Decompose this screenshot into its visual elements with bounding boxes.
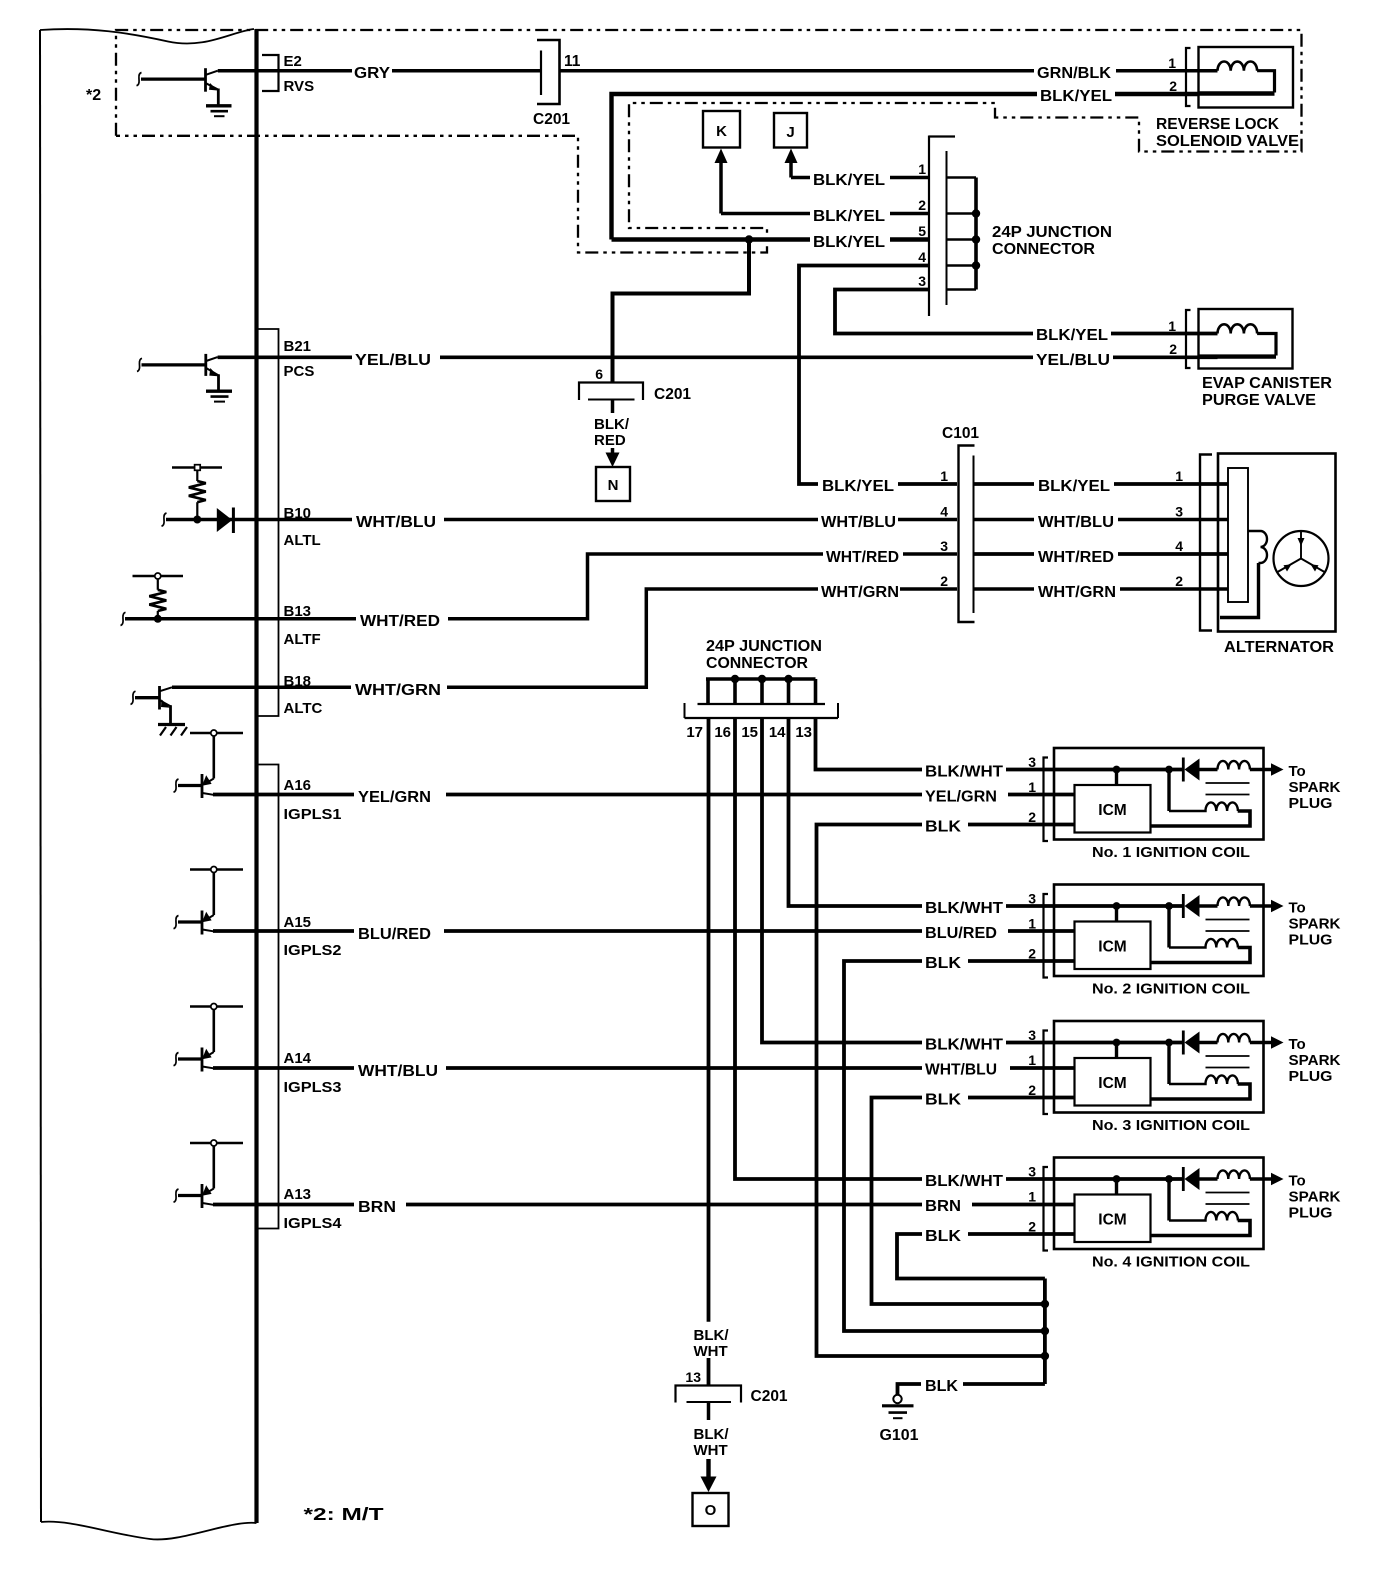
svg-text:WHT/RED: WHT/RED xyxy=(826,549,899,566)
ignition coil No.1 internals xyxy=(1044,748,1284,841)
svg-text:2: 2 xyxy=(1169,341,1177,357)
svg-text:WHT/BLU: WHT/BLU xyxy=(356,514,436,531)
label BLK/YEL (alt) xyxy=(1034,476,1114,492)
svg-text:24P JUNCTION: 24P JUNCTION xyxy=(992,224,1112,241)
transistor Q5 (IGPLS2 A15) xyxy=(174,867,244,935)
arrow to terminal O xyxy=(706,1459,710,1480)
svg-text:BLK/WHT: BLK/WHT xyxy=(925,764,1004,781)
wire BLU/RED (A15 to coil 2) xyxy=(213,929,1075,933)
svg-text:YEL/BLU: YEL/BLU xyxy=(1036,352,1110,369)
svg-text:J: J xyxy=(786,124,794,141)
svg-text:K: K xyxy=(716,123,727,140)
label YEL/GRN (left) xyxy=(354,786,446,803)
svg-text:3: 3 xyxy=(1175,504,1183,520)
wire junction pin 3 to EVAP valve pin 1 (BLK/YEL) xyxy=(835,290,1218,334)
svg-text:WHT/GRN: WHT/GRN xyxy=(355,682,441,699)
svg-text:BLK/YEL: BLK/YEL xyxy=(813,208,885,225)
wire column pin 13 (to coil 1 BLK/WHT) xyxy=(816,718,1184,770)
svg-text:RVS: RVS xyxy=(284,78,315,95)
svg-text:1: 1 xyxy=(1028,1189,1036,1205)
pull-up terminal (B10) xyxy=(172,465,222,471)
svg-text:IGPLS2: IGPLS2 xyxy=(284,942,342,959)
label WHT/RED (alt) xyxy=(1034,546,1118,563)
terminal box K xyxy=(703,111,740,148)
label WHT/RED (C101 left) xyxy=(823,546,903,563)
svg-text:SPARK: SPARK xyxy=(1289,779,1341,796)
svg-text:ICM: ICM xyxy=(1098,1075,1126,1092)
wire to C201 pin 13 xyxy=(707,1358,711,1385)
wire WHT/GRN (C101 to alternator pin 2) xyxy=(975,587,1229,591)
node (coil1 BLK) xyxy=(1041,1352,1049,1360)
wire column pin 14 (to coil 2 BLK/WHT) xyxy=(789,718,1184,906)
ECM pin bracket (A group) xyxy=(259,765,279,1229)
svg-text:4: 4 xyxy=(1175,538,1183,554)
svg-text:16: 16 xyxy=(714,724,731,741)
node (R2 to wire B13) xyxy=(154,615,162,623)
label YEL/BLU (EVAP) xyxy=(1033,349,1113,366)
svg-text:WHT/GRN: WHT/GRN xyxy=(1038,584,1116,601)
label BLK/YEL (pin2 wire) xyxy=(810,206,890,222)
label WHT/BLU (C101 left) xyxy=(818,511,898,528)
svg-text:2: 2 xyxy=(1028,809,1036,825)
svg-text:No. 3 IGNITION COIL: No. 3 IGNITION COIL xyxy=(1092,1117,1250,1134)
ignition coil No.2 internals xyxy=(1044,885,1284,978)
svg-text:3: 3 xyxy=(1028,891,1036,907)
wire column pin 17 (to C201 pin 13) xyxy=(707,718,711,1322)
svg-text:BLK/WHT: BLK/WHT xyxy=(925,1037,1004,1054)
svg-text:CONNECTOR: CONNECTOR xyxy=(992,241,1095,258)
svg-text:IGPLS1: IGPLS1 xyxy=(284,806,342,823)
wire BLK/YEL (C101 to alternator pin 1) xyxy=(975,482,1229,486)
svg-text:IGPLS3: IGPLS3 xyxy=(284,1079,342,1096)
svg-text:2: 2 xyxy=(918,197,926,213)
arrow + wire BLK/YEL to J (junction pin 1) xyxy=(785,149,930,178)
ECM pin bracket (B group) xyxy=(259,329,279,716)
wire BLK (coil 3 to ground bus) xyxy=(872,1098,1075,1305)
svg-text:2: 2 xyxy=(1028,1219,1036,1235)
svg-text:WHT/BLU: WHT/BLU xyxy=(1038,514,1114,531)
EVAP canister purge valve xyxy=(1186,309,1293,369)
svg-text:3: 3 xyxy=(918,273,926,289)
label WHT/GRN (alt) xyxy=(1034,581,1120,598)
transistor Q2 (PCS driver B21) xyxy=(137,354,219,390)
svg-text:YEL/BLU: YEL/BLU xyxy=(355,352,431,369)
svg-text:O: O xyxy=(705,1502,717,1519)
arrow to terminal N xyxy=(611,448,615,457)
ground (Q1 emitter) xyxy=(206,106,232,116)
svg-text:YEL/GRN: YEL/GRN xyxy=(925,789,997,806)
wire BLK/WHT below C201-13 xyxy=(707,1402,711,1420)
wire WHT/BLU (A14 to coil 3) xyxy=(213,1066,1075,1070)
label BLK/YEL (C101 left) xyxy=(818,476,898,492)
ground G101 xyxy=(882,1395,914,1418)
pull-up terminal (B13) xyxy=(133,573,184,579)
svg-text:15: 15 xyxy=(741,724,758,741)
label BLU/RED (left) xyxy=(354,923,444,940)
label WHT/GRN (left) xyxy=(351,679,447,696)
wire GRN/BLK (C201 to reverse lock solenoid valve pin 1) xyxy=(560,69,1218,73)
svg-text:1: 1 xyxy=(1168,55,1176,71)
svg-text:BLK: BLK xyxy=(925,1092,962,1109)
svg-text:WHT: WHT xyxy=(694,1343,728,1360)
reverse lock solenoid valve xyxy=(1186,47,1293,108)
wire BLU/RED (coil 2 pin1 label) xyxy=(922,923,1008,940)
svg-text:4: 4 xyxy=(940,504,948,520)
svg-text:C201: C201 xyxy=(533,111,570,128)
svg-text:BLU/RED: BLU/RED xyxy=(358,926,431,943)
svg-text:WHT/BLU: WHT/BLU xyxy=(925,1062,997,1079)
wire WHT/BLU (B10 to C101 pin 4) xyxy=(257,518,958,522)
svg-text:ALTF: ALTF xyxy=(284,631,321,648)
svg-text:BLK: BLK xyxy=(925,1378,959,1395)
label WHT/BLU (left) xyxy=(352,511,444,528)
label BLK/ RED xyxy=(590,414,636,447)
ground (Q2 emitter) xyxy=(206,391,232,401)
label BLK/YEL (EVAP) xyxy=(1033,325,1111,341)
svg-text:1: 1 xyxy=(1028,916,1036,932)
svg-text:BLK/YEL: BLK/YEL xyxy=(1038,478,1110,495)
svg-text:B21: B21 xyxy=(284,338,312,355)
svg-text:2: 2 xyxy=(1175,573,1183,589)
label GRY xyxy=(352,62,392,79)
svg-text:BLK/WHT: BLK/WHT xyxy=(925,1173,1004,1190)
svg-text:A14: A14 xyxy=(284,1050,312,1067)
wire BLK (coil 2 pin2 label) xyxy=(922,953,968,970)
node (coil3 BLK) xyxy=(1041,1300,1049,1308)
svg-text:ALTL: ALTL xyxy=(284,532,321,549)
svg-text:BRN: BRN xyxy=(925,1198,961,1215)
label YEL/BLU (left) xyxy=(352,349,440,366)
svg-text:GRN/BLK: GRN/BLK xyxy=(1037,65,1112,82)
wire YEL/GRN (A16 to coil 1) xyxy=(213,793,1075,797)
M/T dash-dot boundary loop xyxy=(116,30,1302,253)
wire BLK (coil 1 pin2 label) xyxy=(922,816,968,833)
label WHT/BLU (A14) xyxy=(354,1060,446,1077)
svg-text:PCS: PCS xyxy=(284,363,315,380)
svg-text:6: 6 xyxy=(595,366,603,382)
wire BRN (coil 4 pin1 label) xyxy=(922,1196,972,1213)
wire WHT/BLU (C101 to alternator pin 3) xyxy=(975,518,1229,522)
svg-text:N: N xyxy=(608,477,619,494)
svg-text:ALTC: ALTC xyxy=(284,700,323,717)
wire column pin 16 (to coil 4 BLK/WHT) xyxy=(735,718,1183,1179)
transistor Q1 (RVS driver, *2) xyxy=(137,68,219,104)
transistor Q7 (IGPLS4 A13) xyxy=(174,1140,244,1208)
ground bus vertical xyxy=(1043,1279,1047,1385)
svg-text:BLK/: BLK/ xyxy=(594,416,630,433)
svg-text:BLK/: BLK/ xyxy=(694,1327,730,1344)
transistor Q4 (IGPLS1 A16) xyxy=(174,730,244,798)
wire BLK/RED below C201-6 xyxy=(611,400,615,414)
svg-text:To: To xyxy=(1289,1036,1306,1053)
svg-text:*2: *2 xyxy=(86,87,101,104)
ignition coil No.4 internals xyxy=(1044,1158,1284,1251)
wire WHT/BLU (B10 internal) xyxy=(166,518,257,522)
wire WHT/GRN (B18 to C101 pin 2) xyxy=(172,589,957,687)
svg-text:14: 14 xyxy=(769,724,786,741)
svg-text:2: 2 xyxy=(1169,78,1177,94)
diode D1 (B10) xyxy=(217,508,232,532)
svg-text:REVERSE LOCK: REVERSE LOCK xyxy=(1156,116,1280,133)
svg-text:ALTERNATOR: ALTERNATOR xyxy=(1224,639,1334,656)
node (R1 to wire B10) xyxy=(193,516,201,524)
connector C201 pin 6 (in-line) xyxy=(579,383,643,401)
svg-text:A16: A16 xyxy=(284,777,312,794)
svg-text:13: 13 xyxy=(795,724,812,741)
arrow + wire BLK/YEL to K (junction pin 2) xyxy=(715,149,930,214)
label WHT/RED (left) xyxy=(356,610,448,627)
alternator xyxy=(1200,454,1336,632)
label BLK/YEL (pin1 wire) xyxy=(810,170,890,186)
svg-text:24P JUNCTION: 24P JUNCTION xyxy=(706,638,822,655)
wire YEL/BLU (B21 PCS to EVAP pin 2) xyxy=(218,355,1218,359)
connector C201 pin 11 (in-line) xyxy=(537,40,560,104)
svg-text:1: 1 xyxy=(1168,318,1176,334)
resistor R2 (B13) xyxy=(149,579,166,619)
svg-text:PLUG: PLUG xyxy=(1289,795,1333,812)
svg-text:PLUG: PLUG xyxy=(1289,1205,1333,1222)
wire BLK (coil 1 to ground bus) xyxy=(817,825,1075,1357)
transistor Q3 (ALTC B18) xyxy=(131,686,173,724)
svg-text:No. 1 IGNITION COIL: No. 1 IGNITION COIL xyxy=(1092,844,1250,861)
wire BLK (coil 2 to ground bus) xyxy=(844,961,1075,1331)
svg-text:SOLENOID VALVE: SOLENOID VALVE xyxy=(1156,133,1299,150)
svg-text:BLK/YEL: BLK/YEL xyxy=(813,234,885,251)
svg-text:5: 5 xyxy=(918,223,926,239)
svg-text:PLUG: PLUG xyxy=(1289,932,1333,949)
wire BLK/WHT label (coil 1) xyxy=(922,761,1006,778)
label BLK/YEL (pin5) xyxy=(810,232,890,248)
wire column pin 15 (to coil 3 BLK/WHT) xyxy=(762,718,1183,1043)
svg-text:3: 3 xyxy=(1028,1164,1036,1180)
svg-text:1: 1 xyxy=(918,161,926,177)
svg-text:E2: E2 xyxy=(284,53,302,70)
svg-text:BLK/YEL: BLK/YEL xyxy=(822,478,894,495)
svg-text:BLK/YEL: BLK/YEL xyxy=(813,172,885,189)
svg-text:ICM: ICM xyxy=(1098,939,1126,956)
svg-text:1: 1 xyxy=(1028,1052,1036,1068)
svg-text:3: 3 xyxy=(1028,1027,1036,1043)
wire BLK/YEL junction pin 5 xyxy=(612,237,930,241)
wire BLK/WHT label (coil 3) xyxy=(922,1034,1006,1051)
svg-text:11: 11 xyxy=(564,53,581,70)
svg-text:A15: A15 xyxy=(284,914,312,931)
svg-text:BRN: BRN xyxy=(358,1199,396,1216)
connector C201 pin 13 (in-line) xyxy=(676,1386,742,1403)
wire BLK (coil 3 pin2 label) xyxy=(922,1089,968,1106)
svg-text:No. 4 IGNITION COIL: No. 4 IGNITION COIL xyxy=(1092,1254,1250,1271)
label BRN (left) xyxy=(354,1196,406,1213)
wire WHT/RED (B13 internal) xyxy=(125,617,257,621)
connector pin E2 bracket xyxy=(262,55,279,91)
wire WHT/RED (B13 to C101 pin 3) xyxy=(257,554,958,619)
svg-text:17: 17 xyxy=(686,724,703,741)
terminal box J xyxy=(774,113,807,148)
svg-text:CONNECTOR: CONNECTOR xyxy=(706,655,808,672)
svg-text:EVAP CANISTER: EVAP CANISTER xyxy=(1202,375,1332,392)
svg-text:SPARK: SPARK xyxy=(1289,916,1341,933)
transistor Q6 (IGPLS3 A14) xyxy=(174,1004,244,1072)
chassis ground (B18 emitter, 777 style) xyxy=(158,725,187,736)
svg-text:3: 3 xyxy=(1028,754,1036,770)
svg-text:BLK/WHT: BLK/WHT xyxy=(925,900,1004,917)
terminal box N xyxy=(596,467,630,501)
wire BLK/WHT label (coil 2) xyxy=(922,898,1006,915)
svg-text:To: To xyxy=(1289,763,1306,780)
svg-text:BLK/: BLK/ xyxy=(694,1426,730,1443)
wire WHT/RED (C101 to alternator pin 4) xyxy=(975,552,1229,556)
svg-text:WHT: WHT xyxy=(694,1442,728,1459)
wire junction pin 4 to C101 pin 1 (BLK/YEL) xyxy=(799,266,957,485)
ignition coil No.3 internals xyxy=(1044,1021,1284,1114)
ECM body (torn-edge block) xyxy=(40,29,257,1539)
svg-text:2: 2 xyxy=(1028,1082,1036,1098)
junction node (pin5 branch) xyxy=(745,235,753,243)
label WHT/BLU (alt) xyxy=(1034,511,1118,528)
svg-text:1: 1 xyxy=(1175,468,1183,484)
label BLK/YEL (solenoid pin2) xyxy=(1037,86,1115,102)
wire WHT/BLU (coil 3 pin1 label) xyxy=(922,1059,1010,1076)
wire BLK (coil 4 to ground bus) xyxy=(897,1234,1075,1279)
wire BRN (A13 to coil 4) xyxy=(213,1203,1075,1207)
svg-text:To: To xyxy=(1289,900,1306,917)
svg-text:PURGE VALVE: PURGE VALVE xyxy=(1202,392,1316,409)
wire YEL/GRN (coil 1 pin1 label) xyxy=(922,786,1008,803)
24P junction connector (top) xyxy=(929,136,980,317)
svg-text:SPARK: SPARK xyxy=(1289,1189,1341,1206)
svg-text:BLK/YEL: BLK/YEL xyxy=(1040,88,1112,105)
svg-text:1: 1 xyxy=(940,468,948,484)
svg-text:G101: G101 xyxy=(880,1427,919,1444)
wire branch to C201 pin 6 xyxy=(613,240,750,383)
svg-text:C201: C201 xyxy=(751,1388,788,1405)
svg-text:WHT/BLU: WHT/BLU xyxy=(358,1063,438,1080)
wire BLK (coil 4 pin2 label) xyxy=(922,1226,968,1243)
svg-text:2: 2 xyxy=(940,573,948,589)
svg-text:C201: C201 xyxy=(654,386,691,403)
svg-text:BLK: BLK xyxy=(925,819,962,836)
svg-text:ICM: ICM xyxy=(1098,1212,1126,1229)
svg-text:IGPLS4: IGPLS4 xyxy=(284,1215,343,1232)
svg-text:3: 3 xyxy=(940,538,948,554)
svg-text:YEL/GRN: YEL/GRN xyxy=(358,789,431,806)
svg-text:BLU/RED: BLU/RED xyxy=(925,925,997,942)
svg-text:WHT/GRN: WHT/GRN xyxy=(821,584,899,601)
terminal box O xyxy=(693,1493,729,1526)
svg-text:2: 2 xyxy=(1028,946,1036,962)
svg-text:13: 13 xyxy=(685,1369,701,1385)
svg-text:*2: M/T: *2: M/T xyxy=(304,1504,384,1524)
svg-text:SPARK: SPARK xyxy=(1289,1052,1341,1069)
svg-text:4: 4 xyxy=(918,249,926,265)
24P junction connector (lower) xyxy=(685,675,839,718)
label BLK (ground) xyxy=(921,1376,963,1392)
svg-text:WHT/RED: WHT/RED xyxy=(360,613,440,630)
label WHT/GRN (C101 left) xyxy=(818,581,900,598)
svg-text:BLK: BLK xyxy=(925,1228,962,1245)
svg-text:No. 2 IGNITION COIL: No. 2 IGNITION COIL xyxy=(1092,981,1250,998)
resistor R1 (B10) xyxy=(189,470,206,520)
svg-text:To: To xyxy=(1289,1173,1306,1190)
svg-text:BLK: BLK xyxy=(925,955,962,972)
wire BLK/WHT label (coil 4) xyxy=(922,1171,1006,1188)
svg-text:WHT/BLU: WHT/BLU xyxy=(821,514,896,531)
wire BLK to G101 xyxy=(898,1384,1045,1395)
svg-text:ICM: ICM xyxy=(1098,802,1126,819)
svg-text:PLUG: PLUG xyxy=(1289,1068,1333,1085)
wire BLK/YEL (solenoid pin 2 return) xyxy=(612,94,1199,240)
svg-text:WHT/RED: WHT/RED xyxy=(1038,549,1114,566)
node (coil2 BLK) xyxy=(1041,1327,1049,1335)
svg-text:RED: RED xyxy=(594,432,626,449)
label GRN/BLK xyxy=(1034,62,1116,79)
svg-text:BLK/YEL: BLK/YEL xyxy=(1036,327,1108,344)
connector C101 xyxy=(959,446,975,623)
svg-text:GRY: GRY xyxy=(354,65,391,82)
svg-text:A13: A13 xyxy=(284,1186,312,1203)
svg-text:C101: C101 xyxy=(942,425,979,442)
svg-text:1: 1 xyxy=(1028,779,1036,795)
wire GRY (E2 to C201) xyxy=(218,69,540,73)
